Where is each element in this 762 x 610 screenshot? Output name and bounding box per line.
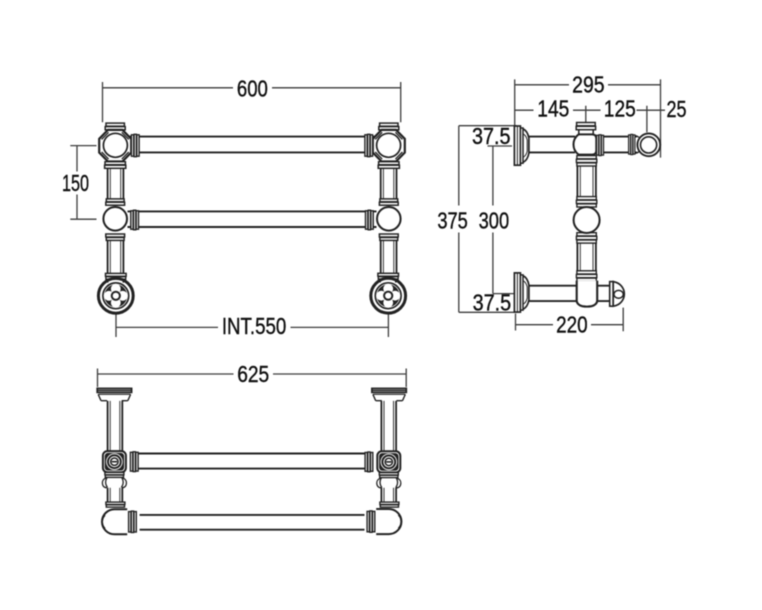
svg-text:37.5: 37.5 [472,123,511,149]
top view: left wall flange [97,388,131,400]
side view: collar before rail ring [629,135,631,154]
side view: top wall flange [514,126,529,165]
front view: T ball joint mid-left [103,199,138,241]
side view: top wall stay pipe [529,137,637,153]
top view: right rail elbow [367,509,401,534]
top view: left rail elbow [102,509,136,534]
svg-text:25: 25 [667,96,687,122]
dim 220 extension lines [516,308,624,332]
side view: cross joint cap stub [577,123,596,126]
side view: vertical post tube [577,166,596,272]
svg-text:220: 220 [556,312,588,338]
dim 295 extension lines [515,79,661,157]
front view: valve handwheel left [98,273,133,313]
side view: post collar 3 [576,233,596,243]
front view: bottom towel rail tube [128,211,377,227]
top view: right wall flange [372,388,406,400]
front view: corner ball joint top-right [365,123,405,168]
top view: collar above right elbow [380,502,399,504]
side view: valve knob flange [610,282,614,307]
svg-text:375: 375 [437,207,468,233]
top view: right cross joint [365,451,401,488]
svg-text:625: 625 [237,361,269,387]
svg-text:150: 150 [62,170,89,196]
dim 150 line [76,146,78,220]
side view: bottom wall flange [514,273,529,312]
dim 600 line [103,87,401,89]
side view: valve knob slot [614,290,623,298]
top view: left cross joint [102,451,138,488]
svg-text:295: 295 [572,72,605,98]
top view: left wall stay pipe [108,401,123,502]
side view: bottom wall stay pipe [529,286,610,301]
dim 145/125/25 line [515,109,665,111]
front view: right post tube [381,168,397,273]
side view: post collar 1 [576,156,596,166]
top view: collar above left elbow [106,502,125,504]
svg-text:125: 125 [604,96,636,122]
front view: valve handwheel right [371,273,406,313]
dim INT.550 extension lines [116,315,388,338]
svg-text:600: 600 [237,75,268,101]
dim 37.5 top ticks [459,126,517,146]
dim 220 line [516,324,624,326]
side view: post collar 2 [576,197,596,207]
side view: middle rail ball joint [574,207,600,233]
dim 300 line [492,146,494,294]
dim 375 line [458,126,460,313]
top view: upper rail tube [139,454,366,469]
side view: cross joint body [573,134,596,154]
front view: top towel rail tube [128,137,377,153]
svg-text:37.5: 37.5 [473,290,512,316]
dim INT.550 line [116,326,388,328]
top view: right wall stay pipe [381,401,396,502]
side view: collar right of cross [597,135,599,155]
dim 625 line [98,373,407,375]
svg-text:300: 300 [479,207,510,233]
dim 295 line [515,84,661,86]
dim 600 extension lines [103,82,401,122]
dim 150 ticks [70,146,96,220]
dim 145/125/25 ticks [586,106,647,133]
svg-text:INT.550: INT.550 [222,313,287,339]
side view: post collar 4 [576,271,596,281]
side view: valve knob dome [613,282,624,307]
dim 625 extension lines [98,369,407,388]
side view: ring bracket lips [635,136,639,154]
svg-text:145: 145 [537,96,569,122]
front view: left post tube [108,168,124,273]
front view: corner ball joint top-left [99,123,139,168]
dim 37.5 bottom ticks [459,294,515,313]
side view: bottom tee elbow body [577,281,598,307]
side view: towel rail end ring [637,133,660,156]
top view: lower rail tube [140,515,365,530]
front view: T ball joint mid-right [366,199,401,241]
